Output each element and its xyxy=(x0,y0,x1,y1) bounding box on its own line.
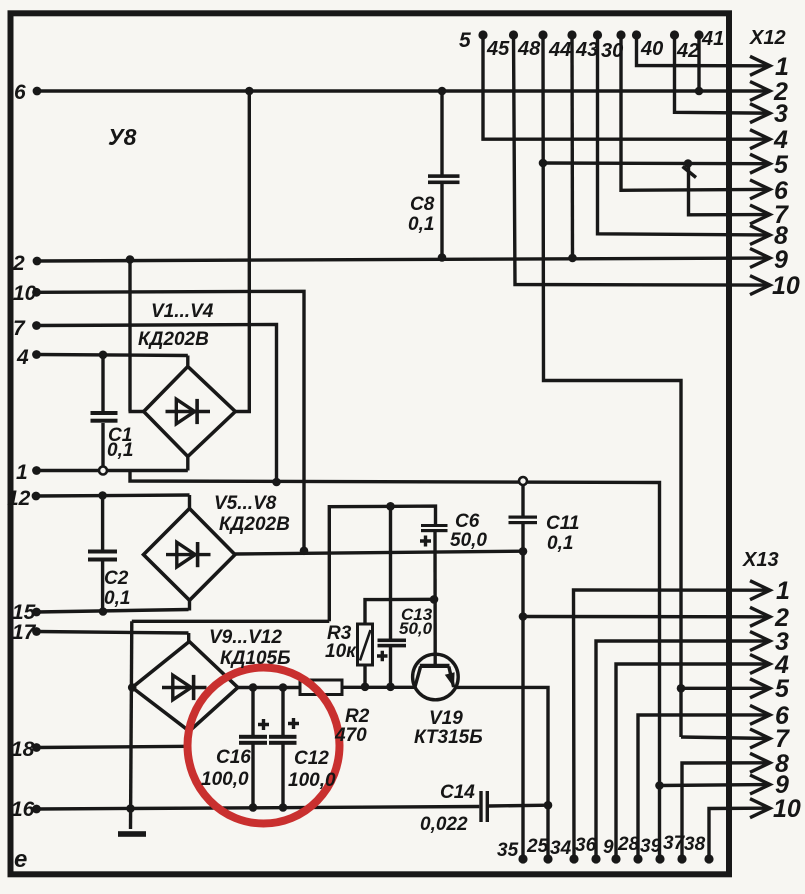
svg-text:0,1: 0,1 xyxy=(408,214,434,235)
transistor V19 emitter diagonal with arrow xyxy=(449,667,454,688)
junction bridge3 left ground xyxy=(128,683,137,692)
wire top pin 45 to X12-10 xyxy=(514,35,771,285)
connector X13 arrow 9 xyxy=(750,775,770,794)
svg-text:35: 35 xyxy=(497,840,519,861)
wire R3 top line y599 xyxy=(365,599,434,624)
bridge rectifier V9...V12 diamond xyxy=(132,642,238,732)
junction X12-5 pin48 xyxy=(539,159,548,168)
svg-text:V5...V8: V5...V8 xyxy=(214,493,277,514)
capacitor C14 plates xyxy=(479,791,482,822)
node top pin 41 xyxy=(694,30,703,39)
svg-text:100,0: 100,0 xyxy=(201,769,249,790)
connector X13 arrow 6 xyxy=(750,705,770,724)
junction X13-9 xyxy=(655,781,664,790)
svg-text:50,0: 50,0 xyxy=(450,530,487,551)
svg-text:42: 42 xyxy=(676,40,699,62)
junction out687 C16 xyxy=(249,683,258,692)
wire pin12 line xyxy=(37,495,190,496)
wire C12 upper lead xyxy=(281,688,284,736)
junction net6 C8 xyxy=(438,87,447,96)
svg-text:С11: С11 xyxy=(546,513,579,534)
connector X12 arrow 8 xyxy=(750,226,770,245)
junction rail481 pin7 xyxy=(272,478,281,487)
wire top pin 48 down to X13-5 and X13-7 xyxy=(543,35,681,737)
wire C8 lower lead xyxy=(440,184,443,259)
wire X13-5 stub xyxy=(681,687,770,690)
node pin1 xyxy=(32,466,41,475)
svg-text:44: 44 xyxy=(548,39,571,61)
junction X13-5 xyxy=(677,684,686,693)
node open circle rail481 xyxy=(519,477,527,485)
svg-text:5: 5 xyxy=(774,151,789,179)
connector X12 arrow 10 xyxy=(750,276,770,295)
svg-text:10: 10 xyxy=(13,282,37,305)
wire rail y506 C6 top xyxy=(329,506,435,621)
connector X12 arrow 5 xyxy=(750,154,770,173)
svg-text:0,1: 0,1 xyxy=(107,440,133,461)
junction out687 C12 xyxy=(279,683,288,692)
wire C11 lower lead down to pin 35 xyxy=(521,524,524,859)
wire top pin 43 to X12-8 xyxy=(598,35,771,235)
svg-text:С12: С12 xyxy=(294,748,329,769)
svg-text:КТ315Б: КТ315Б xyxy=(414,727,483,748)
connector X13 arrow 10 xyxy=(750,799,770,818)
wire top pin 42 to X12-3 xyxy=(675,35,771,113)
connector X13 arrow 7 xyxy=(750,729,770,748)
wire C13 lower lead xyxy=(389,647,392,687)
wire pin1 line xyxy=(37,469,188,472)
svg-text:0,1: 0,1 xyxy=(104,588,130,609)
wire pin4 line xyxy=(37,355,188,356)
wire top pin 44 to net2 xyxy=(570,35,574,258)
node bottom pin 38 xyxy=(704,854,713,863)
node bottom pin 28 xyxy=(633,854,642,863)
svg-text:36: 36 xyxy=(575,835,597,856)
svg-text:50,0: 50,0 xyxy=(399,619,433,638)
wire net2: pin 2 line to X12-9 xyxy=(37,258,770,261)
node open circle C1 bottom xyxy=(99,467,107,475)
svg-text:V1...V4: V1...V4 xyxy=(151,301,214,322)
svg-text:С14: С14 xyxy=(440,782,475,803)
wire X13-10 from pin 38 xyxy=(709,808,770,859)
wire C6 lower lead and V19 collector xyxy=(433,532,437,666)
svg-text:3: 3 xyxy=(774,100,788,128)
wire C8 upper lead xyxy=(440,91,443,175)
connector X13 arrow 5 xyxy=(750,679,770,698)
node bottom pin 36 xyxy=(591,854,600,863)
node pin2 xyxy=(33,257,42,266)
connector X13 arrow 8 xyxy=(750,753,770,772)
diode symbol inside V9...V12 xyxy=(162,675,207,700)
node pin15 xyxy=(32,608,41,617)
wire X13-7 stub xyxy=(681,737,770,739)
wire net6: pin 6 line to X12-2 xyxy=(37,89,770,92)
svg-text:45: 45 xyxy=(486,38,510,60)
wire X13-9 stub xyxy=(660,785,771,786)
svg-text:0,1: 0,1 xyxy=(547,533,573,554)
wire X12-5 to X12-7 branch xyxy=(689,164,771,215)
node pin12 xyxy=(32,492,41,501)
capacitor C16 plates xyxy=(239,735,267,739)
wire X12-5 line xyxy=(543,161,770,165)
junction net2 bridge1 left xyxy=(126,255,135,264)
junction pin12 C2 xyxy=(98,491,107,500)
junction pin16 C16 xyxy=(249,803,258,812)
node top pin 40 xyxy=(632,30,641,39)
junction X13-2 C11 xyxy=(519,612,528,621)
junction rail552 pin10 xyxy=(300,547,309,556)
node top pin 42 xyxy=(670,30,679,39)
junction pin4 C1 xyxy=(99,351,108,360)
svg-text:1: 1 xyxy=(776,577,790,605)
connector X12 arrow 7 xyxy=(750,205,770,224)
svg-text:48: 48 xyxy=(517,38,541,60)
wire top pin 40 to X12-1 xyxy=(637,35,771,66)
junction net2 pin44 xyxy=(568,254,577,263)
svg-text:4: 4 xyxy=(773,126,788,154)
node bottom pin 34 xyxy=(569,854,578,863)
wire pin10 line xyxy=(37,291,305,551)
node pin16 xyxy=(32,805,41,814)
wire bridge1 top stub xyxy=(186,356,189,368)
transistor V19 circle xyxy=(413,654,459,700)
junction pin16 C12 xyxy=(279,803,288,812)
capacitor C6 plates xyxy=(421,524,448,527)
svg-text:КД202В: КД202В xyxy=(219,514,290,535)
svg-text:18: 18 xyxy=(11,738,35,761)
node top pin 48 xyxy=(538,30,547,39)
connector X12 arrow 2 xyxy=(750,82,770,101)
junction line599 collector xyxy=(430,595,439,604)
svg-text:16: 16 xyxy=(11,798,35,821)
node top pin 45 xyxy=(509,30,518,39)
wire pin2 to bridge1 left corner xyxy=(128,260,131,412)
connector X13 arrow 4 xyxy=(750,655,770,674)
wire bridge2 top stub xyxy=(188,495,191,509)
wire bridge2 bottom stub xyxy=(188,600,191,611)
svg-text:28: 28 xyxy=(617,834,640,855)
svg-text:2: 2 xyxy=(12,252,25,275)
node pin17 xyxy=(32,627,41,636)
wire R3 bottom lead xyxy=(363,665,366,687)
svg-text:С2: С2 xyxy=(104,568,129,589)
svg-text:V9...V12: V9...V12 xyxy=(209,627,282,648)
connector X12 arrow 1 xyxy=(750,56,770,75)
capacitor C8 plates xyxy=(428,174,460,178)
bridge rectifier V1...V4 diamond xyxy=(144,367,236,457)
svg-text:10к: 10к xyxy=(325,641,357,662)
node pin10 xyxy=(32,288,41,297)
junction pin15 C2 xyxy=(99,607,108,616)
svg-text:5: 5 xyxy=(775,675,790,703)
plus sign of C16 xyxy=(258,719,269,730)
svg-text:30: 30 xyxy=(601,40,623,62)
wire bridge3 top stub xyxy=(187,633,190,642)
plus sign of C6 xyxy=(420,536,431,547)
capacitor C12 plates xyxy=(269,735,297,739)
svg-text:25: 25 xyxy=(526,836,549,857)
wire pin17 ground branch y621 xyxy=(132,620,329,623)
svg-text:7: 7 xyxy=(13,317,26,340)
ARROWS xyxy=(750,56,770,817)
wire bridge1 left stub xyxy=(129,410,147,413)
connector X13 arrow 2 xyxy=(750,607,770,626)
junction pin16 ground xyxy=(126,804,135,813)
wire C12 lower lead xyxy=(281,745,284,808)
ground symbol xyxy=(118,831,146,837)
wire X13-8 from pin 37 xyxy=(682,763,770,859)
connector X12 arrow 4 xyxy=(750,130,770,149)
connector X12 arrow 6 xyxy=(750,180,770,199)
node bottom pin 37 xyxy=(677,854,686,863)
junction net6 bridge1 xyxy=(245,87,254,96)
wire C11 upper lead xyxy=(521,482,524,516)
svg-text:У8: У8 xyxy=(108,124,137,150)
svg-text:X12: X12 xyxy=(749,27,786,49)
wire X13-1 from pin 34 xyxy=(574,590,771,859)
svg-text:10: 10 xyxy=(773,795,801,823)
diode symbol inside V1...V4 xyxy=(166,399,211,424)
node pin18 xyxy=(32,743,41,752)
svg-text:4: 4 xyxy=(16,346,29,369)
wire C2 upper lead xyxy=(101,496,104,550)
wire X13-6 from pin 28 xyxy=(638,715,770,859)
wire top pin 30 to X12-6 xyxy=(621,35,770,190)
wire pin16 line right of C14 xyxy=(489,804,548,808)
junction X12-5 branch xyxy=(684,159,693,168)
node bottom pin 35 xyxy=(518,854,527,863)
wire bridge1 bottom stub xyxy=(186,456,189,471)
wire C16 lower lead xyxy=(251,745,254,808)
wire C13 upper lead xyxy=(389,506,392,638)
svg-text:С16: С16 xyxy=(216,747,251,768)
svg-text:17: 17 xyxy=(12,621,37,644)
capacitor C2 plates xyxy=(88,550,117,554)
resistor R2 body xyxy=(300,680,342,695)
wire C16 upper lead xyxy=(251,688,254,736)
wire pin17 line xyxy=(37,632,189,634)
svg-text:1: 1 xyxy=(775,53,789,81)
wire pin15 line xyxy=(37,610,189,613)
wire C1 lower lead xyxy=(101,423,104,471)
wire X13-4 from pin 9 xyxy=(616,664,770,859)
junction base687 C13 xyxy=(386,683,395,692)
svg-text:6: 6 xyxy=(14,81,26,104)
svg-text:100,0: 100,0 xyxy=(288,770,336,791)
wire C2 lower lead xyxy=(101,562,104,612)
svg-text:X13: X13 xyxy=(742,549,779,571)
svg-text:R2: R2 xyxy=(345,706,370,727)
wire pin16 line left of C14 xyxy=(37,807,479,810)
junction net2 C8 xyxy=(438,253,447,262)
svg-text:12: 12 xyxy=(7,487,31,510)
wire bridge3 bottom stub xyxy=(188,731,191,747)
transistor V19 base bar xyxy=(420,664,450,668)
svg-text:С6: С6 xyxy=(455,511,480,532)
svg-text:0,022: 0,022 xyxy=(420,814,468,835)
bridge rectifier V5...V8 diamond xyxy=(144,509,236,601)
svg-text:37: 37 xyxy=(663,833,686,854)
capacitor C1 plates xyxy=(91,411,118,415)
connector X13 arrow 3 xyxy=(750,632,770,651)
junction base687 R3 xyxy=(361,683,370,692)
svg-text:V19: V19 xyxy=(429,708,463,729)
svg-text:е: е xyxy=(14,846,27,873)
svg-text:43: 43 xyxy=(575,39,598,61)
wire slash tick on X12-5 branch xyxy=(683,167,697,178)
junction rail552 C11 xyxy=(519,547,528,556)
node pin4 xyxy=(32,350,41,359)
slash inside R3 xyxy=(360,630,371,661)
plus sign of C13 xyxy=(377,651,388,661)
red annotation circle around C16 C12 xyxy=(188,668,340,824)
svg-text:39: 39 xyxy=(640,836,662,857)
wire bridge3 output to R2 xyxy=(238,686,300,689)
wire C1 upper lead xyxy=(101,355,104,411)
wire R2 to V19 base xyxy=(342,686,415,689)
connector X12 arrow 9 xyxy=(750,249,770,268)
junction pin16 C14 emitter xyxy=(544,801,553,810)
wire pin18 line xyxy=(37,746,190,747)
wire ground vertical x131 to ground symbol xyxy=(131,621,132,829)
plus sign of C12 xyxy=(288,718,299,729)
svg-text:5: 5 xyxy=(459,29,471,52)
svg-text:40: 40 xyxy=(640,38,663,60)
wire bridge1 right corner up to net6 xyxy=(235,91,249,412)
svg-text:С8: С8 xyxy=(410,194,435,215)
svg-text:9: 9 xyxy=(774,246,788,274)
wire raw DC rail y552 xyxy=(235,551,523,554)
wire pin7 line xyxy=(37,325,277,483)
node top pin 5 xyxy=(478,30,487,39)
capacitor C11 plates xyxy=(509,516,538,519)
svg-text:34: 34 xyxy=(550,838,572,859)
svg-text:470: 470 xyxy=(334,725,367,746)
wire top pin 41 to net6 xyxy=(697,35,700,91)
svg-text:КД202В: КД202В xyxy=(138,329,209,350)
diode symbol inside V5...V8 xyxy=(166,542,211,567)
svg-text:41: 41 xyxy=(701,28,724,50)
svg-text:КД105Б: КД105Б xyxy=(220,648,291,669)
node pin7 xyxy=(32,321,41,330)
capacitor C13 plates xyxy=(378,639,407,643)
wire X13-3 from pin 36 xyxy=(596,641,770,859)
wire X13-2 from C11 xyxy=(523,615,770,619)
wire V19 emitter line to x548 xyxy=(454,687,549,859)
connector X13 arrow 1 xyxy=(750,581,770,600)
wire ground rail y481 xyxy=(130,471,660,860)
node top pin 30 xyxy=(616,30,625,39)
node top pin 43 xyxy=(593,30,602,39)
resistor R3 body xyxy=(358,624,373,665)
svg-text:38: 38 xyxy=(684,834,706,855)
node pin6 xyxy=(33,87,42,96)
svg-text:10: 10 xyxy=(772,272,800,300)
junction rail506 C13 xyxy=(386,502,395,511)
junction net6 pin41 xyxy=(695,87,704,96)
svg-text:1: 1 xyxy=(16,461,28,484)
node bottom pin 39 xyxy=(655,854,664,863)
svg-text:7: 7 xyxy=(775,725,790,753)
node top pin 44 xyxy=(567,30,576,39)
svg-text:9: 9 xyxy=(603,837,614,858)
connector X12 arrow 3 xyxy=(750,104,770,123)
node bottom pin 9 xyxy=(611,854,620,863)
wire top pin 5 to X12-4 xyxy=(483,35,770,139)
node bottom pin 25 xyxy=(543,854,552,863)
transistor V19 collector diagonal xyxy=(415,667,421,688)
